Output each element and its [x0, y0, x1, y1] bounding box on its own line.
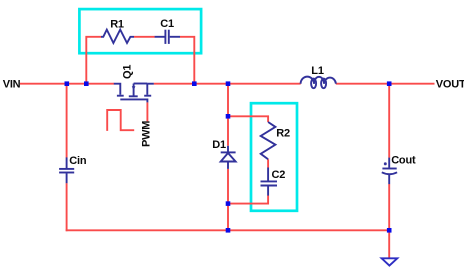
svg-text:R1: R1 [110, 19, 124, 31]
svg-text:R2: R2 [276, 127, 290, 139]
svg-text:Cout: Cout [391, 155, 416, 167]
svg-text:VIN: VIN [3, 79, 21, 91]
svg-text:PWM: PWM [140, 121, 152, 147]
svg-text:Q1: Q1 [121, 65, 133, 79]
svg-text:D1: D1 [212, 139, 226, 151]
svg-text:C1: C1 [160, 18, 174, 30]
svg-text:C2: C2 [272, 169, 286, 181]
svg-text:L1: L1 [311, 65, 324, 77]
svg-text:Cin: Cin [69, 155, 87, 167]
svg-text:VOUT: VOUT [436, 78, 464, 90]
